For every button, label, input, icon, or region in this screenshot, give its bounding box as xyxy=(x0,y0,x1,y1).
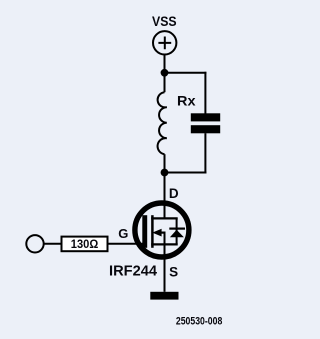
svg-text:VSS: VSS xyxy=(152,13,177,29)
MOSFET IRF244 xyxy=(135,203,189,257)
svg-text:130Ω: 130Ω xyxy=(71,237,99,251)
source stub xyxy=(151,243,178,245)
wire drain xyxy=(164,173,166,219)
svg-text:Rx: Rx xyxy=(177,92,196,108)
svg-text:D: D xyxy=(169,186,179,201)
bulk stub with arrow xyxy=(152,229,161,237)
junction top node xyxy=(161,69,169,77)
wire supply to node D-top xyxy=(164,55,166,73)
pin label D xyxy=(169,186,179,201)
label Rx xyxy=(177,92,196,108)
input terminal xyxy=(26,235,43,252)
junction bottom node xyxy=(161,169,169,177)
supply terminal VSS xyxy=(153,31,176,54)
pin label S xyxy=(169,265,178,280)
text schematic number 250530-008 xyxy=(176,315,222,327)
drain stub xyxy=(151,217,178,219)
transistor body circle xyxy=(135,203,189,257)
wire resistor to gate xyxy=(109,243,148,245)
gate bar xyxy=(142,215,147,248)
wire capacitor branch lower xyxy=(204,133,206,173)
ground xyxy=(150,292,178,300)
wire bottom node to capacitor branch xyxy=(165,172,207,174)
svg-text:S: S xyxy=(169,265,178,280)
body diode line xyxy=(176,218,178,244)
inductor Rx xyxy=(158,73,167,173)
wire source to ground xyxy=(164,244,166,291)
svg-text:250530-008: 250530-008 xyxy=(176,315,222,327)
pin label G xyxy=(118,226,128,241)
wire terminal to resistor xyxy=(44,243,61,245)
wire top node to capacitor branch xyxy=(165,72,207,74)
svg-text:IRF244: IRF244 xyxy=(109,264,157,280)
resistor R1 130 ohm xyxy=(62,237,108,252)
node VSS label xyxy=(152,13,177,29)
capacitor C1 xyxy=(191,113,220,133)
wire capacitor branch upper xyxy=(204,72,206,114)
svg-text:G: G xyxy=(118,226,128,241)
body diode cathode bar xyxy=(169,228,185,230)
body diode triangle xyxy=(170,230,184,238)
label IRF244 xyxy=(109,264,157,280)
channel bar xyxy=(151,215,154,248)
